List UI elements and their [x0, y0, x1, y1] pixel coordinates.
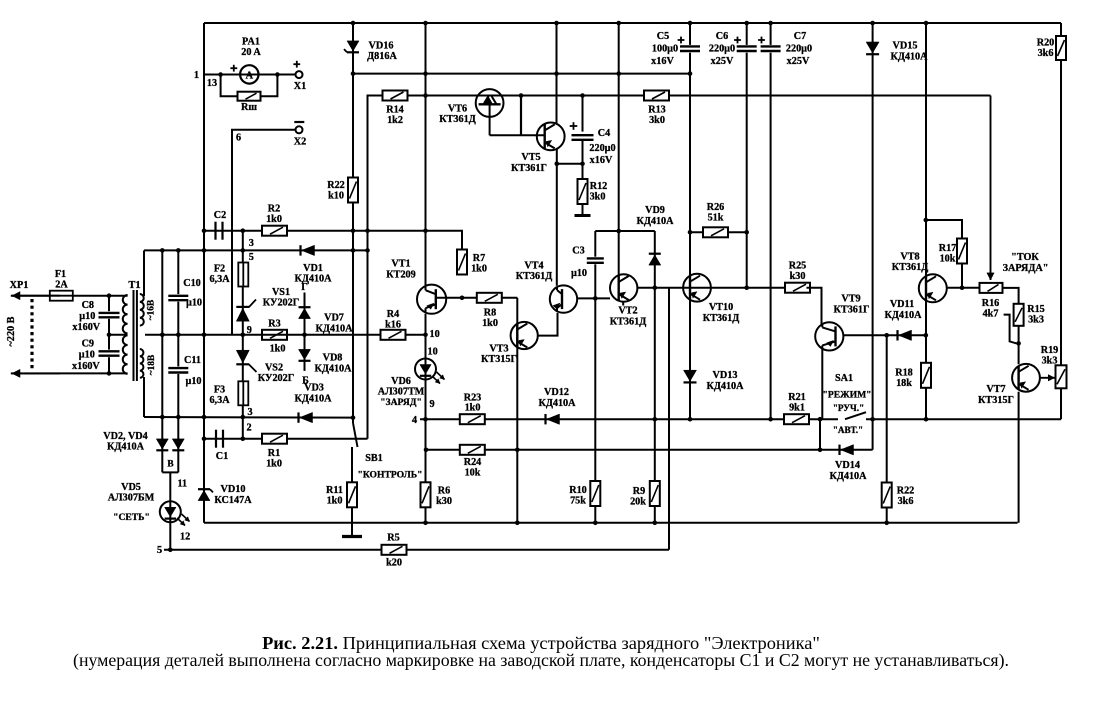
- svg-text:~220 В: ~220 В: [6, 316, 17, 346]
- diode VD3: [144, 416, 353, 419]
- resistor R19 3k3: [1056, 365, 1067, 388]
- svg-text:18k: 18k: [896, 378, 912, 389]
- capacitor C3 u10: [594, 231, 596, 298]
- fuse F2 6.3A: [238, 263, 248, 287]
- svg-text:"ЗАРЯД": "ЗАРЯД": [380, 397, 422, 408]
- wire R17 bottom to emitter row: [961, 264, 963, 288]
- svg-text:VT7: VT7: [986, 384, 1005, 395]
- wire R15 bottom to VT7 collector: [1018, 326, 1020, 364]
- svg-text:X2: X2: [294, 137, 306, 148]
- thyristor VS1: [236, 308, 249, 321]
- svg-text:1k0: 1k0: [482, 318, 498, 329]
- transistor VT10: [683, 274, 711, 302]
- ground under R12: [575, 214, 591, 217]
- svg-text:КД410А: КД410А: [538, 398, 576, 409]
- svg-text:F3: F3: [214, 385, 225, 396]
- svg-text:6,3А: 6,3А: [209, 395, 230, 406]
- wire VT6 to VT5 base: [490, 134, 545, 136]
- transistor VT7: [1012, 364, 1040, 392]
- svg-text:13: 13: [207, 78, 217, 89]
- svg-text:VT9: VT9: [841, 294, 860, 305]
- wire R22(3k6) column x=886.7: [886, 335, 888, 523]
- transistor VT2: [618, 23, 620, 275]
- svg-text:R3: R3: [268, 319, 280, 330]
- transistor VT1: [425, 23, 427, 285]
- svg-text:VD16: VD16: [369, 41, 394, 52]
- svg-text:k20: k20: [386, 558, 402, 569]
- svg-text:В: В: [167, 460, 173, 470]
- svg-text:1k0: 1k0: [471, 264, 487, 275]
- svg-text:~18В: ~18В: [147, 355, 157, 376]
- LED VD6: [415, 359, 436, 380]
- secondary top tap: [143, 250, 145, 296]
- resistor R4 k16: [381, 330, 406, 340]
- wire C8/C9 mid tap: [109, 334, 127, 336]
- svg-text:R17: R17: [939, 243, 957, 254]
- svg-text:220µ0: 220µ0: [786, 44, 812, 55]
- svg-text:R20: R20: [1037, 38, 1055, 49]
- svg-text:C3: C3: [572, 246, 584, 257]
- svg-text:"СЕТЬ": "СЕТЬ": [113, 512, 150, 523]
- wire VT8 emitter to R16: [947, 287, 980, 289]
- svg-text:VD2, VD4: VD2, VD4: [103, 431, 148, 442]
- resistor R1 1k0: [262, 434, 287, 444]
- svg-text:10k: 10k: [940, 254, 956, 265]
- resistor R20 3k6: [1060, 23, 1062, 419]
- svg-text:КД410А: КД410А: [294, 394, 332, 405]
- svg-text:C8: C8: [82, 300, 94, 311]
- svg-text:F2: F2: [214, 264, 225, 275]
- svg-text:9k1: 9k1: [789, 403, 805, 414]
- VD2/VD4 join: [162, 471, 178, 473]
- svg-text:3k3: 3k3: [1028, 315, 1044, 326]
- resistor R8 1k0: [477, 293, 502, 303]
- resistor R21 9k1: [784, 414, 809, 424]
- capacitor C5 100u: [689, 23, 691, 419]
- fuse F3 6.3A: [238, 381, 248, 405]
- resistor R15 3k3: [1014, 304, 1024, 326]
- wire: left bus x=204: [203, 23, 205, 523]
- resistor R22 k10: [348, 178, 358, 203]
- svg-text:ЗАРЯДА": ЗАРЯДА": [1003, 263, 1049, 274]
- svg-text:µ10: µ10: [79, 350, 95, 361]
- resistor R9 20k: [650, 481, 660, 506]
- svg-text:Д816А: Д816А: [367, 51, 397, 62]
- switch SA1: [838, 414, 866, 423]
- svg-text:R10: R10: [569, 485, 587, 496]
- resistor R11 1k0: [351, 447, 353, 482]
- wire R10 column x=595.3: [594, 298, 596, 522]
- capacitor C4 220u: [582, 96, 584, 164]
- resistor R22 3k6: [882, 483, 892, 508]
- svg-text:КД410А: КД410А: [890, 52, 928, 63]
- svg-text:VD7: VD7: [324, 313, 344, 324]
- svg-text:R4: R4: [387, 309, 399, 320]
- svg-text:КТ361Д: КТ361Д: [610, 317, 646, 328]
- shunt Rш loop: [221, 75, 238, 97]
- svg-text:R8: R8: [484, 308, 496, 319]
- wire primary top: [11, 295, 128, 297]
- svg-text:C6: C6: [716, 31, 728, 42]
- svg-text:VD12: VD12: [544, 387, 569, 398]
- resistor R13 3k0: [644, 91, 669, 101]
- svg-text:x25V: x25V: [787, 56, 810, 67]
- wire: rail3 right corner to R16 wiper arrow: [990, 96, 992, 281]
- svg-text:6: 6: [236, 133, 241, 144]
- svg-text:220µ0: 220µ0: [709, 44, 735, 55]
- svg-text:КД410А: КД410А: [884, 310, 922, 321]
- capacitor C9: [98, 350, 120, 358]
- svg-text:КТ361Д: КТ361Д: [703, 313, 739, 324]
- svg-text:~16В: ~16В: [147, 300, 157, 321]
- svg-text:КД410А: КД410А: [107, 442, 145, 453]
- wire: VT5 collector to top rail x=556.5: [556, 23, 558, 124]
- svg-text:VT1: VT1: [391, 259, 410, 270]
- svg-text:VT6: VT6: [448, 104, 467, 115]
- wire: main lower row y=419.2 node 4: [420, 418, 1061, 420]
- svg-text:11: 11: [178, 479, 188, 490]
- svg-text:Rш: Rш: [241, 102, 257, 113]
- wire VT2 emitter row to VT10/R25: [637, 287, 787, 289]
- capacitor C1: [215, 430, 217, 448]
- svg-text:C4: C4: [598, 128, 610, 139]
- transistor VT4: [550, 285, 577, 312]
- diode VD15: [872, 23, 874, 450]
- svg-text:VS1: VS1: [272, 287, 290, 298]
- svg-text:C1: C1: [216, 451, 228, 462]
- wire VT7 base arrow to R19: [1040, 377, 1055, 379]
- svg-text:R6: R6: [438, 486, 450, 497]
- resistor R17 10k: [957, 239, 967, 264]
- svg-text:VD3: VD3: [304, 383, 324, 394]
- svg-text:КД410А: КД410А: [315, 324, 353, 335]
- resistor R7 1k0: [457, 250, 467, 275]
- svg-text:КТ361Г: КТ361Г: [511, 163, 547, 174]
- diode VD8: [304, 335, 306, 371]
- svg-text:3: 3: [249, 238, 254, 249]
- plug XP1 arrows: [12, 295, 60, 297]
- resistor R26 51k: [690, 231, 747, 233]
- svg-text:КУ202Г: КУ202Г: [258, 373, 294, 384]
- svg-text:АЛ307БМ: АЛ307БМ: [108, 493, 155, 504]
- svg-text:VD14: VD14: [835, 460, 860, 471]
- svg-text:VD9: VD9: [645, 205, 665, 216]
- transformer core: [133, 290, 135, 381]
- svg-text:2А: 2А: [55, 280, 68, 291]
- svg-text:R22: R22: [897, 486, 915, 497]
- svg-text:1k0: 1k0: [266, 459, 282, 470]
- switch SB1 контроль: [352, 418, 354, 423]
- svg-text:x160V: x160V: [72, 361, 100, 372]
- svg-text:АЛ307ТМ: АЛ307ТМ: [378, 387, 425, 398]
- svg-text:VD15: VD15: [893, 41, 918, 52]
- svg-text:x16V: x16V: [590, 155, 613, 166]
- resistor R16 4k7 (ток заряда pot): [980, 283, 1003, 293]
- wire VT9 base row y=335.3: [843, 334, 925, 336]
- svg-text:(нумерация деталей выполнена с: (нумерация деталей выполнена согласно ма…: [73, 650, 1009, 671]
- svg-text:12: 12: [180, 532, 190, 543]
- transistor VT8: [919, 274, 947, 302]
- LED VD5 сеть: [169, 472, 171, 549]
- resistor R5 k20: [382, 545, 407, 555]
- wire VT9 emitter down to SA1 wire: [821, 349, 823, 419]
- diode VD2: [161, 250, 163, 472]
- capacitor C7 220u: [770, 23, 772, 419]
- svg-text:A: A: [246, 71, 254, 82]
- svg-text:5: 5: [249, 252, 254, 263]
- wire VT1 base to R7/R8 junction: [437, 297, 517, 299]
- svg-text:k30: k30: [790, 271, 806, 282]
- R15 wiper link: [1004, 315, 1017, 344]
- svg-text:Г: Г: [301, 282, 307, 293]
- wire: third rail y=95.5 (R13/R14 row): [368, 95, 991, 97]
- svg-text:µ10: µ10: [79, 311, 95, 322]
- capacitor C6 220u: [746, 23, 748, 288]
- wire: R2 row y=230.7 with corner to R7: [204, 231, 462, 249]
- wire VT3 base up to VT4 emitter: [538, 313, 558, 336]
- svg-text:КТ361Д: КТ361Д: [516, 271, 552, 282]
- resistor R3 1k0: [262, 330, 287, 340]
- resistor R12 3k0: [582, 164, 584, 214]
- capacitor C10: [177, 250, 179, 472]
- resistor R25 k30: [785, 283, 810, 293]
- wire R16 right corner to R15: [1003, 288, 1019, 304]
- wire: C1/R1 row y=438.7 node 2: [204, 438, 368, 440]
- wire C3/VD9 top link y=231: [595, 230, 655, 232]
- svg-text:4k7: 4k7: [983, 309, 999, 320]
- ammeter PA1: [240, 65, 258, 83]
- svg-text:VD1: VD1: [303, 263, 323, 274]
- svg-text:µ10: µ10: [185, 376, 201, 387]
- capacitor C2: [214, 222, 216, 240]
- svg-text:PA1: PA1: [242, 37, 260, 48]
- svg-text:R16: R16: [982, 298, 1000, 309]
- wire x=669 column to R5: [668, 288, 670, 550]
- svg-text:КУ202Г: КУ202Г: [263, 298, 299, 309]
- svg-text:1k0: 1k0: [327, 496, 343, 507]
- svg-text:КТ315Г: КТ315Г: [978, 395, 1014, 406]
- svg-text:R5: R5: [387, 533, 399, 544]
- transistor VT3: [511, 322, 538, 349]
- svg-text:10k: 10k: [465, 468, 481, 479]
- svg-text:R7: R7: [473, 253, 485, 264]
- terminal X2: [296, 126, 303, 133]
- svg-text:1k0: 1k0: [270, 344, 286, 355]
- wire primary bottom: [11, 372, 128, 374]
- resistor R23 1k0: [460, 414, 485, 424]
- wire: mid row y=334.8 (node 9/10): [145, 334, 426, 336]
- svg-text:µ10: µ10: [571, 268, 587, 279]
- svg-text:C7: C7: [794, 31, 806, 42]
- svg-text:R19: R19: [1041, 345, 1059, 356]
- svg-text:R9: R9: [633, 486, 645, 497]
- wire: VD16/R22 column x=353: [352, 23, 354, 418]
- transistor VT9: [815, 322, 843, 350]
- svg-text:3k3: 3k3: [1042, 356, 1058, 367]
- svg-text:R25: R25: [789, 261, 807, 272]
- svg-text:R21: R21: [788, 392, 806, 403]
- svg-text:КД410А: КД410А: [294, 274, 332, 285]
- transistor VT1 emitter column / LED VD6: [425, 314, 427, 523]
- svg-text:КД410А: КД410А: [706, 381, 744, 392]
- svg-text:51k: 51k: [708, 213, 724, 224]
- svg-text:КТ361Д: КТ361Д: [439, 114, 475, 125]
- diode VD12: [547, 414, 560, 424]
- svg-text:220µ0: 220µ0: [589, 143, 615, 154]
- zener VD16: [347, 41, 359, 51]
- resistor R24 10k: [460, 445, 485, 455]
- wire: riser x=521: [520, 96, 522, 136]
- svg-text:"АВТ.": "АВТ.": [833, 425, 863, 435]
- svg-text:КТ315Г: КТ315Г: [481, 354, 517, 365]
- svg-text:КТ361Д: КТ361Д: [892, 262, 928, 273]
- wire: R5 row y=549.8 node 5: [164, 549, 669, 551]
- svg-text:1k2: 1k2: [387, 115, 403, 126]
- svg-text:VT10: VT10: [709, 302, 733, 313]
- svg-text:T1: T1: [128, 280, 140, 291]
- wire VD14 left riser: [819, 419, 821, 450]
- svg-text:3k6: 3k6: [898, 496, 914, 507]
- diode VD9: [654, 231, 656, 523]
- svg-text:R14: R14: [386, 105, 404, 116]
- svg-text:C9: C9: [82, 339, 94, 350]
- svg-text:"РЕЖИМ": "РЕЖИМ": [823, 390, 872, 401]
- fuse F1 2A: [50, 291, 73, 301]
- wire: bottom rail y=522.8: [204, 522, 1018, 524]
- wire X2 to node 6: [232, 130, 296, 335]
- svg-text:3k6: 3k6: [1038, 48, 1054, 59]
- svg-text:КТ209: КТ209: [386, 270, 415, 281]
- svg-text:4: 4: [412, 415, 418, 426]
- svg-text:КД410А: КД410А: [636, 216, 674, 227]
- svg-text:10: 10: [428, 347, 438, 358]
- svg-text:x160V: x160V: [72, 322, 100, 333]
- svg-text:µ10: µ10: [186, 298, 202, 309]
- wire R24/VD14 row y=449.8: [426, 449, 873, 451]
- wire: top supply rail y=23: [204, 22, 1061, 24]
- resistor R6 k30: [421, 482, 431, 507]
- node 1 / ammeter row wire: [204, 74, 296, 76]
- wire: VT5 emitter down / VT4 collector x=556.8: [556, 150, 558, 286]
- svg-text:R26: R26: [707, 202, 725, 213]
- ground under R11: [351, 507, 353, 536]
- transistor VT6: [476, 89, 504, 117]
- diode VD1: [302, 245, 315, 255]
- resistor R18 18k: [921, 363, 931, 388]
- svg-text:k10: k10: [328, 191, 344, 202]
- svg-text:КС147А: КС147А: [214, 495, 252, 506]
- wire VT7 emitter down to bottom rail: [1018, 392, 1020, 523]
- svg-text:КТ361Г: КТ361Г: [834, 305, 870, 316]
- svg-text:VT4: VT4: [524, 261, 543, 272]
- svg-text:C5: C5: [657, 31, 669, 42]
- svg-text:X1: X1: [294, 81, 306, 92]
- svg-text:1k0: 1k0: [465, 403, 481, 414]
- svg-text:VT3: VT3: [489, 344, 508, 355]
- svg-text:VD5: VD5: [121, 482, 141, 493]
- diode VD13: [684, 370, 697, 381]
- svg-text:R11: R11: [326, 485, 343, 496]
- svg-text:10: 10: [430, 329, 440, 340]
- svg-text:R24: R24: [464, 457, 482, 468]
- svg-text:100µ0: 100µ0: [652, 44, 678, 55]
- svg-text:"РУЧ.": "РУЧ.": [833, 403, 864, 413]
- svg-text:R13: R13: [648, 105, 666, 116]
- capacitor C11: [167, 366, 189, 374]
- svg-text:C2: C2: [214, 210, 226, 221]
- resistor R14 1k2: [383, 91, 408, 101]
- capacitor C8: [108, 296, 110, 374]
- resistor R10 75k: [590, 481, 600, 506]
- wire: VD1 row y=250.4: [144, 249, 368, 251]
- svg-text:VD11: VD11: [890, 299, 914, 310]
- resistor R2 1k0: [262, 226, 287, 236]
- diode VD14: [841, 445, 854, 455]
- svg-text:R2: R2: [268, 204, 280, 215]
- svg-text:R18: R18: [895, 368, 913, 379]
- wire: R14 left corner x=367.5 column: [368, 96, 384, 439]
- svg-text:VD6: VD6: [391, 376, 411, 387]
- svg-text:"КОНТРОЛЬ": "КОНТРОЛЬ": [358, 470, 423, 481]
- svg-text:75k: 75k: [570, 496, 586, 507]
- svg-text:6,3А: 6,3А: [209, 274, 230, 285]
- wire VT4 base to VT2 base: [577, 297, 610, 299]
- svg-text:3k0: 3k0: [649, 115, 665, 126]
- svg-text:1: 1: [194, 70, 199, 81]
- mains dashed line: [30, 299, 33, 370]
- wire x=926 column: [925, 23, 927, 419]
- svg-text:VT5: VT5: [521, 152, 540, 163]
- svg-text:C11: C11: [184, 355, 201, 366]
- wire: second rail y=74: [353, 73, 690, 75]
- svg-text:k30: k30: [436, 496, 452, 507]
- svg-text:9: 9: [429, 399, 434, 410]
- svg-text:VS2: VS2: [265, 363, 283, 374]
- resistor Rш: [238, 92, 261, 101]
- terminal X1: [296, 71, 303, 78]
- svg-text:SA1: SA1: [835, 373, 853, 384]
- transformer T1 secondary: [140, 294, 144, 326]
- svg-text:VD8: VD8: [323, 353, 343, 364]
- diode VD11: [899, 330, 912, 340]
- svg-text:КД410А: КД410А: [314, 364, 352, 375]
- wire R8 corner down to VT3: [516, 298, 518, 523]
- svg-text:F1: F1: [55, 269, 66, 280]
- svg-text:3k0: 3k0: [590, 192, 606, 203]
- svg-text:VT2: VT2: [618, 306, 637, 317]
- wire: emitter-C4-R12 link y=163.7: [557, 163, 583, 165]
- svg-text:R1: R1: [268, 448, 280, 459]
- transistor VT5: [537, 122, 565, 150]
- svg-text:КД410А: КД410А: [829, 471, 867, 482]
- secondary bottom tap: [143, 377, 145, 417]
- zener VD10: [198, 490, 210, 500]
- wire: VS column x=242.8: [242, 230, 244, 439]
- svg-text:20 A: 20 A: [241, 47, 261, 58]
- svg-text:20k: 20k: [630, 497, 646, 508]
- svg-text:VD10: VD10: [221, 484, 246, 495]
- svg-text:ХР1: ХР1: [10, 280, 29, 291]
- svg-text:R22: R22: [327, 180, 345, 191]
- svg-text:C10: C10: [183, 278, 201, 289]
- svg-text:1k0: 1k0: [266, 214, 282, 225]
- diode VD4: [172, 439, 184, 449]
- wire R25 to VT9 collector: [807, 288, 822, 325]
- svg-text:R12: R12: [590, 181, 608, 192]
- wire R17 top link: [926, 220, 962, 239]
- svg-text:k16: k16: [385, 320, 401, 331]
- svg-text:x25V: x25V: [711, 56, 734, 67]
